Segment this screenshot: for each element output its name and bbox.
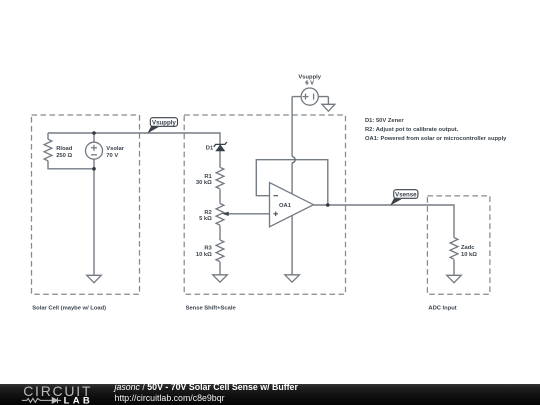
- svg-text:ADC Input: ADC Input: [428, 305, 456, 311]
- svg-text:R1: R1: [204, 174, 212, 180]
- wire: Vsolar vertical: [93, 133, 95, 169]
- svg-text:R2: Adjust pot to calibrate ou: R2: Adjust pot to calibrate output.: [365, 127, 459, 133]
- wire: Vsolar to ground: [93, 169, 95, 275]
- svg-text:R2: R2: [204, 210, 211, 216]
- potentiometer R2: [216, 204, 224, 226]
- resistor R1: [216, 167, 224, 189]
- voltage source Vsupply: [301, 88, 318, 105]
- ground (Vsupply): [322, 104, 335, 111]
- svg-text:Vsense: Vsense: [395, 191, 417, 198]
- wire: op-amp output to Zadc: [314, 205, 455, 238]
- wire: R2 to R3: [219, 226, 221, 241]
- svg-text:OA1: Powered from solar or mic: OA1: Powered from solar or microcontroll…: [365, 136, 507, 142]
- wire: R3 to ground: [219, 262, 221, 275]
- ground (solar cell): [87, 275, 102, 282]
- wire: Vsupply down to op-amp V+ (hop gap): [291, 97, 293, 157]
- svg-text:250 Ω: 250 Ω: [56, 153, 72, 159]
- wire: Rload leads: [47, 133, 49, 139]
- svg-text:Vsupply: Vsupply: [152, 119, 176, 126]
- wire: Vsupply terminals: [292, 96, 328, 98]
- net flag Vsense: [390, 190, 418, 206]
- diode D1 (zener): [214, 142, 227, 151]
- junction node: output / feedback: [326, 203, 330, 207]
- wire: zener D1 through-lead: [219, 145, 221, 168]
- svg-text:Vsolar: Vsolar: [106, 146, 124, 152]
- wire: R2 wiper to op-amp + input: [224, 213, 270, 215]
- voltage source Vsolar: [86, 142, 103, 159]
- enclosure box: Solar Cell: [32, 115, 140, 294]
- ground (divider): [213, 275, 228, 282]
- junction node: Vsolar+ / top rail: [92, 131, 96, 135]
- svg-text:D1: D1: [206, 145, 214, 151]
- svg-text:Zadc: Zadc: [461, 245, 475, 251]
- net flag Vsupply: [147, 118, 177, 134]
- svg-text:Rload: Rload: [56, 146, 73, 152]
- ground (ADC): [447, 275, 462, 282]
- svg-text:6 V: 6 V: [305, 80, 314, 86]
- svg-text:Sense Shift+Scale: Sense Shift+Scale: [186, 305, 237, 311]
- enclosure box: ADC Input: [427, 196, 490, 294]
- enclosure box: Sense Shift+Scale: [184, 115, 345, 294]
- op-amp OA1 body: [270, 183, 314, 227]
- wire: top rail Vsupply net: [48, 133, 220, 145]
- wire hop over feedback: [292, 157, 295, 163]
- junction node: Vsolar- / Rload: [92, 167, 96, 171]
- wire: R1 to R2: [219, 189, 221, 203]
- wire: Vsupply ground stub: [327, 97, 329, 105]
- wire: Zadc to ground: [453, 260, 455, 276]
- svg-text:30 kΩ: 30 kΩ: [196, 180, 212, 186]
- svg-text:10 kΩ: 10 kΩ: [196, 252, 212, 258]
- svg-text:LAB: LAB: [64, 395, 93, 405]
- svg-text:10 kΩ: 10 kΩ: [461, 252, 477, 258]
- ground (op-amp): [285, 275, 300, 282]
- svg-text:5 kΩ: 5 kΩ: [199, 216, 212, 222]
- resistor R3: [216, 240, 224, 262]
- op-amp input polarity marks: [273, 196, 278, 216]
- svg-text:D1: 50V Zener: D1: 50V Zener: [365, 118, 404, 124]
- R2 wiper arrow: [222, 212, 228, 216]
- svg-text:OA1: OA1: [279, 203, 292, 209]
- wire: op-amp V- to ground: [291, 212, 293, 275]
- svg-text:70 V: 70 V: [106, 153, 118, 159]
- wire: feedback loop to inverting input: [256, 160, 328, 205]
- resistor Zadc: [450, 238, 458, 260]
- svg-text:Solar Cell (maybe w/ Load): Solar Cell (maybe w/ Load): [32, 305, 106, 311]
- CircuitLab logo: [21, 384, 99, 405]
- resistor Rload: [44, 139, 52, 161]
- svg-text:R3: R3: [204, 246, 212, 252]
